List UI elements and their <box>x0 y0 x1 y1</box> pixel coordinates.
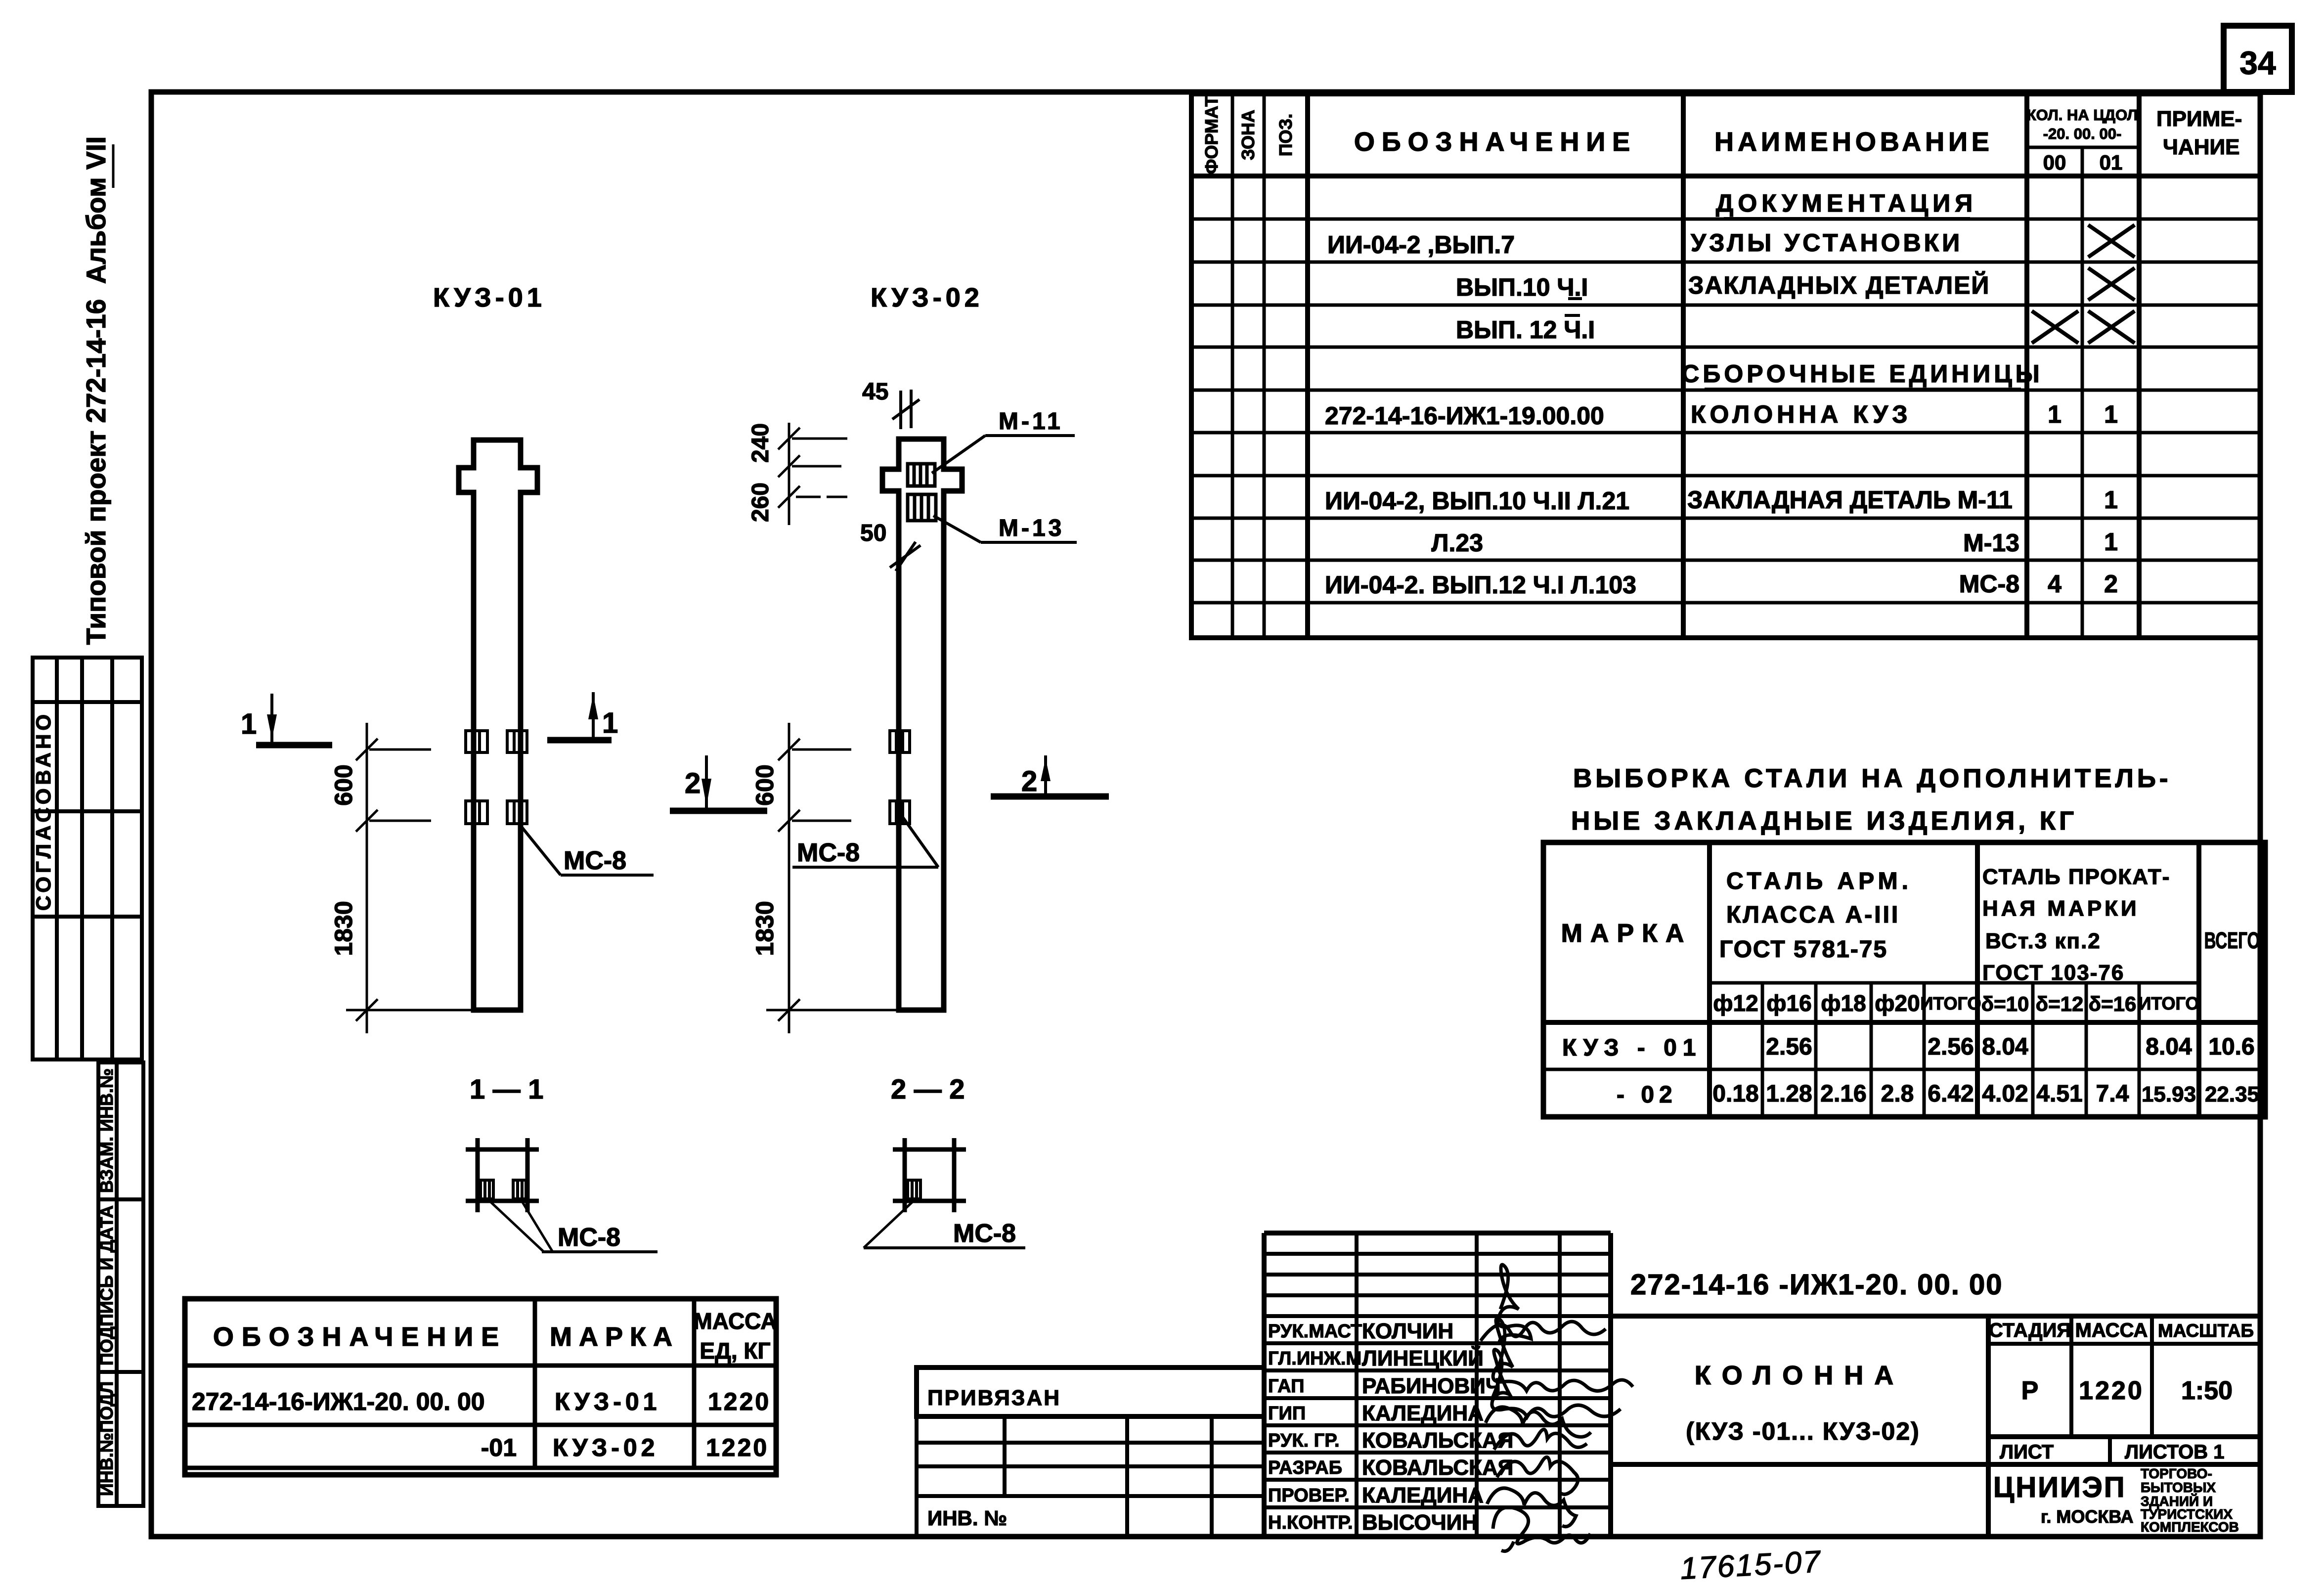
handwritten archive number 17615-07 <box>1679 1544 1822 1586</box>
svg-text:КУЗ-01: КУЗ-01 <box>433 283 546 312</box>
svg-text:8.04: 8.04 <box>2146 1034 2192 1060</box>
svg-text:2.56: 2.56 <box>1766 1034 1812 1060</box>
left stamp grid under privyazan <box>917 1416 1264 1537</box>
KUZ-01 dimension chain 600 / 1830 <box>346 723 474 1033</box>
svg-text:1: 1 <box>2104 400 2118 428</box>
svg-text:ЛИНЕЦКИЙ: ЛИНЕЦКИЙ <box>1362 1345 1484 1370</box>
svg-text:0.18: 0.18 <box>1712 1081 1758 1107</box>
svg-text:ЧАНИЕ: ЧАНИЕ <box>2163 135 2239 159</box>
svg-text:г. МОСКВА: г. МОСКВА <box>2041 1506 2134 1527</box>
svg-text:1220: 1220 <box>708 1388 771 1415</box>
left margin stamp boxes <box>98 1062 143 1506</box>
svg-text:4.02: 4.02 <box>1982 1081 2028 1107</box>
M-11 leader and label <box>932 408 1075 473</box>
svg-text:- 02: - 02 <box>1617 1082 1677 1108</box>
svg-text:2: 2 <box>1021 765 1037 797</box>
section mark 1 right <box>547 692 618 740</box>
svg-text:ф12: ф12 <box>1713 990 1758 1016</box>
svg-text:ЗАКЛАДНЫХ ДЕТАЛЕЙ: ЗАКЛАДНЫХ ДЕТАЛЕЙ <box>1688 271 1990 299</box>
svg-text:δ=12: δ=12 <box>2036 992 2084 1015</box>
svg-text:ИИ-04-2, ВЫП.10 Ч.II Л.21: ИИ-04-2, ВЫП.10 Ч.II Л.21 <box>1325 487 1629 515</box>
column KUZ-02 outline <box>882 439 962 1010</box>
svg-text:600: 600 <box>330 764 357 805</box>
svg-text:δ=10: δ=10 <box>1981 992 2029 1015</box>
svg-text:ЦНИИЭП: ЦНИИЭП <box>1993 1471 2126 1503</box>
svg-text:1: 1 <box>2048 400 2061 428</box>
svg-text:КОЛОННА КУЗ: КОЛОННА КУЗ <box>1691 400 1912 428</box>
svg-text:ф18: ф18 <box>1821 990 1866 1016</box>
specification table grid <box>1191 94 2260 638</box>
svg-text:ЕД, КГ: ЕД, КГ <box>700 1338 770 1364</box>
svg-text:КЛАССА А-III: КЛАССА А-III <box>1726 902 1900 928</box>
KUZ-02 embedded plates MC-8 on shaft <box>890 731 910 824</box>
svg-text:ВСЕГО: ВСЕГО <box>2204 928 2260 953</box>
column KUZ-01 label <box>433 283 546 312</box>
X marks in quantity columns <box>2032 225 2135 343</box>
svg-text:ЛИСТОВ 1: ЛИСТОВ 1 <box>2125 1441 2225 1463</box>
svg-text:ИНВ. №: ИНВ. № <box>927 1506 1007 1530</box>
svg-text:45: 45 <box>862 379 888 405</box>
svg-text:МАСШТАБ: МАСШТАБ <box>2158 1321 2254 1341</box>
svg-text:ОБОЗНАЧЕНИЕ: ОБОЗНАЧЕНИЕ <box>213 1322 507 1352</box>
svg-text:2 — 2: 2 — 2 <box>891 1073 965 1104</box>
soglasovano table <box>33 658 142 1059</box>
svg-text:ЗАКЛАДНАЯ ДЕТАЛЬ М-11: ЗАКЛАДНАЯ ДЕТАЛЬ М-11 <box>1687 486 2013 514</box>
privyazan box <box>917 1367 1264 1416</box>
svg-text:ВСт.3 кп.2: ВСт.3 кп.2 <box>1985 929 2101 953</box>
signature table names <box>1362 1319 1513 1535</box>
svg-text:ф20: ф20 <box>1875 990 1920 1016</box>
section 1-1 corner plates MC-8 <box>481 1180 526 1199</box>
section 2-2 corner plate MC-8 <box>908 1180 921 1199</box>
svg-text:600: 600 <box>751 764 779 805</box>
steel table row KUZ-01 <box>1562 1034 2255 1061</box>
svg-text:МАССА: МАССА <box>694 1308 777 1334</box>
svg-text:МС-8: МС-8 <box>564 846 626 875</box>
svg-text:272-14-16-ИЖ1-19.00.00: 272-14-16-ИЖ1-19.00.00 <box>1325 402 1604 430</box>
svg-text:-20. 00. 00-: -20. 00. 00- <box>2043 125 2122 142</box>
svg-text:1830: 1830 <box>751 901 779 956</box>
svg-text:КАЛЕДИНА: КАЛЕДИНА <box>1362 1401 1484 1425</box>
underlines in specification table <box>1565 219 2021 389</box>
svg-text:10.6: 10.6 <box>2208 1034 2254 1060</box>
sheet number box 34 <box>2224 26 2292 92</box>
svg-text:КУЗ-02: КУЗ-02 <box>871 283 983 312</box>
svg-text:ИИ-04-2 ,ВЫП.7: ИИ-04-2 ,ВЫП.7 <box>1327 231 1515 259</box>
KUZ-02 embedded plate M-13 <box>908 494 936 521</box>
svg-text:ИТОГО: ИТОГО <box>2139 993 2199 1014</box>
svg-text:ПРИМЕ-: ПРИМЕ- <box>2156 107 2242 131</box>
handwritten signatures <box>1481 1265 1633 1551</box>
svg-text:22.35: 22.35 <box>2205 1082 2259 1106</box>
svg-text:СБОРОЧНЫЕ ЕДИНИЦЫ: СБОРОЧНЫЕ ЕДИНИЦЫ <box>1681 360 2043 388</box>
svg-text:Типовой проект 272-14-16 Альб: Типовой проект 272-14-16 Альбом VII <box>81 136 111 645</box>
section 2-2 square <box>893 1138 966 1212</box>
dimension 50 <box>860 520 921 571</box>
section 1-1 label <box>470 1073 543 1104</box>
svg-text:ВЫСОЧИН: ВЫСОЧИН <box>1362 1510 1478 1535</box>
svg-text:ГЛ.ИНЖ.М: ГЛ.ИНЖ.М <box>1268 1348 1361 1369</box>
product name <box>1686 1361 1920 1445</box>
svg-text:М-13: М-13 <box>1963 529 2019 557</box>
svg-text:РУК. ГР.: РУК. ГР. <box>1268 1430 1340 1451</box>
section 1-1 square <box>466 1138 539 1212</box>
svg-text:272-14-16 -ИЖ1-20. 00. 00: 272-14-16 -ИЖ1-20. 00. 00 <box>1630 1269 2003 1301</box>
svg-text:8.04: 8.04 <box>1982 1034 2028 1060</box>
svg-text:ГАП: ГАП <box>1268 1376 1304 1397</box>
stage/mass/scale cells <box>1988 1316 2260 1464</box>
svg-text:КОВАЛЬСКАЯ: КОВАЛЬСКАЯ <box>1362 1428 1513 1453</box>
signature table labels <box>1268 1321 1362 1533</box>
KUZ-01 embedded plates MC-8 on shaft <box>466 731 527 824</box>
left margin vertical title: Типовой проект 272-14-16 Альбом VII <box>81 136 113 645</box>
svg-text:ФОРМАТ: ФОРМАТ <box>1201 96 1222 174</box>
svg-text:ПРОВЕР.: ПРОВЕР. <box>1268 1485 1350 1506</box>
svg-text:1 — 1: 1 — 1 <box>470 1073 543 1104</box>
svg-text:НЫЕ ЗАКЛАДНЫЕ ИЗДЕЛИЯ, КГ: НЫЕ ЗАКЛАДНЫЕ ИЗДЕЛИЯ, КГ <box>1571 806 2077 836</box>
svg-text:δ=16: δ=16 <box>2089 992 2137 1015</box>
svg-text:КУЗ - 01: КУЗ - 01 <box>1562 1035 1702 1061</box>
svg-text:МАРКА: МАРКА <box>1561 919 1692 948</box>
svg-text:НАЯ МАРКИ: НАЯ МАРКИ <box>1982 896 2140 921</box>
svg-text:01: 01 <box>2100 151 2123 174</box>
svg-text:ф16: ф16 <box>1766 990 1811 1016</box>
svg-text:МС-8: МС-8 <box>558 1223 620 1252</box>
svg-text:1220: 1220 <box>706 1434 769 1461</box>
section 2-2 label <box>891 1073 965 1104</box>
svg-text:КОЛ. НА ЦДОЛ: КОЛ. НА ЦДОЛ <box>2027 106 2138 124</box>
steel table grid <box>1543 842 2265 1117</box>
svg-text:(КУЗ -01... КУЗ-02): (КУЗ -01... КУЗ-02) <box>1686 1417 1920 1445</box>
M-13 leader and label <box>933 515 1077 542</box>
KUZ-01 MC-8 leader and label <box>519 823 654 875</box>
svg-text:ЛИСТ: ЛИСТ <box>2000 1441 2054 1463</box>
column KUZ-01 outline <box>459 440 537 1010</box>
svg-text:СОГЛАСОВАНО: СОГЛАСОВАНО <box>32 711 55 911</box>
svg-text:1:50: 1:50 <box>2181 1376 2233 1405</box>
svg-text:РУК.МАСТ: РУК.МАСТ <box>1268 1321 1362 1342</box>
KUZ-02 dimension chain 600 / 1830 <box>766 723 899 1033</box>
svg-text:КОВАЛЬСКАЯ: КОВАЛЬСКАЯ <box>1362 1456 1513 1480</box>
svg-text:ВЗАМ. ИНВ.№: ВЗАМ. ИНВ.№ <box>96 1068 117 1193</box>
svg-text:СТАЛЬ АРМ.: СТАЛЬ АРМ. <box>1726 868 1912 894</box>
svg-text:1830: 1830 <box>330 901 357 956</box>
svg-text:ТОРГОВО-: ТОРГОВО- <box>2141 1466 2212 1481</box>
steel table header texts <box>1561 865 2260 985</box>
svg-text:ГОСТ 103-76: ГОСТ 103-76 <box>1982 961 2124 985</box>
svg-text:КОМПЛЕКСОВ: КОМПЛЕКСОВ <box>2141 1519 2239 1535</box>
svg-text:4.51: 4.51 <box>2036 1081 2082 1107</box>
svg-text:ИНВ.№ПОДЛ: ИНВ.№ПОДЛ <box>96 1381 117 1496</box>
svg-text:00: 00 <box>2043 151 2066 174</box>
svg-text:2: 2 <box>685 767 701 799</box>
svg-text:2: 2 <box>2104 570 2118 598</box>
svg-text:ИИ-04-2. ВЫП.12 Ч.I Л.103: ИИ-04-2. ВЫП.12 Ч.I Л.103 <box>1325 571 1636 599</box>
svg-text:КУЗ-02: КУЗ-02 <box>553 1434 658 1461</box>
svg-text:ПОЗ.: ПОЗ. <box>1275 114 1296 156</box>
title block main dividers <box>1611 1316 2260 1537</box>
bottom-left designation table grid <box>185 1299 776 1475</box>
svg-text:КАЛЕДИНА: КАЛЕДИНА <box>1362 1483 1484 1507</box>
svg-text:4: 4 <box>2048 570 2061 598</box>
specification table rows <box>1325 189 2118 599</box>
svg-text:СТАДИЯ: СТАДИЯ <box>1989 1320 2071 1341</box>
svg-text:ПОДПИСЬ И ДАТА: ПОДПИСЬ И ДАТА <box>96 1205 117 1366</box>
signature table grid <box>1264 1233 1611 1537</box>
svg-text:15.93: 15.93 <box>2142 1082 2196 1106</box>
bottom-left table texts <box>192 1308 777 1461</box>
svg-text:ВЫБОРКА СТАЛИ НА ДОПОЛНИТЕЛ: ВЫБОРКА СТАЛИ НА ДОПОЛНИТЕЛЬ- <box>1573 764 2172 793</box>
svg-text:1: 1 <box>2104 486 2118 514</box>
svg-text:1: 1 <box>241 708 257 740</box>
svg-text:ОБОЗНАЧЕНИЕ: ОБОЗНАЧЕНИЕ <box>1354 127 1637 157</box>
svg-text:2.16: 2.16 <box>1820 1081 1866 1107</box>
svg-text:КОЛЧИН: КОЛЧИН <box>1362 1319 1453 1343</box>
svg-text:КУЗ-01: КУЗ-01 <box>555 1388 660 1415</box>
svg-text:1: 1 <box>602 707 618 739</box>
svg-text:М-11: М-11 <box>999 408 1063 435</box>
svg-text:ДОКУМЕНТАЦИЯ: ДОКУМЕНТАЦИЯ <box>1716 189 1977 217</box>
section mark 2 left <box>670 755 767 811</box>
svg-text:272-14-16-ИЖ1-20. 00. 00: 272-14-16-ИЖ1-20. 00. 00 <box>192 1388 485 1415</box>
svg-text:СТАЛЬ ПРОКАТ-: СТАЛЬ ПРОКАТ- <box>1982 865 2170 889</box>
svg-text:ВЫП.10 Ч.I: ВЫП.10 Ч.I <box>1456 273 1588 301</box>
section mark 1 left <box>241 694 332 745</box>
svg-text:М-13: М-13 <box>999 515 1064 541</box>
specification table header texts <box>1201 96 2242 174</box>
KUZ-02 top dimension chain 240 / 260 <box>778 423 847 525</box>
svg-text:БЫТОВЫХ: БЫТОВЫХ <box>2141 1480 2216 1495</box>
svg-text:260: 260 <box>747 483 774 522</box>
column KUZ-02 label <box>871 283 983 312</box>
svg-text:ИТОГО: ИТОГО <box>1921 993 1981 1014</box>
steel selection title <box>1571 764 2172 836</box>
svg-text:Н.КОНТР.: Н.КОНТР. <box>1268 1512 1353 1533</box>
svg-text:240: 240 <box>747 423 774 463</box>
institute name <box>1993 1466 2239 1535</box>
steel table subheader <box>1713 990 2199 1016</box>
svg-text:50: 50 <box>860 520 886 546</box>
svg-text:1: 1 <box>2104 528 2118 556</box>
svg-text:7.4: 7.4 <box>2096 1081 2129 1107</box>
svg-text:МС-8: МС-8 <box>797 838 860 867</box>
svg-text:РАБИНОВИЧ: РАБИНОВИЧ <box>1362 1374 1501 1398</box>
svg-text:НАИМЕНОВАНИЕ: НАИМЕНОВАНИЕ <box>1714 127 1993 157</box>
svg-text:ПРИВЯЗАН: ПРИВЯЗАН <box>927 1386 1061 1410</box>
title designation 272-14-16-ИЖ1-20.00.00 <box>1630 1269 2003 1301</box>
section 1-1 MC-8 leaders and label <box>488 1200 658 1252</box>
svg-text:34: 34 <box>2239 44 2276 81</box>
svg-text:2.56: 2.56 <box>1928 1034 1973 1060</box>
svg-text:6.42: 6.42 <box>1928 1081 1973 1107</box>
svg-text:ГИП: ГИП <box>1268 1403 1306 1424</box>
svg-text:Р: Р <box>2021 1376 2039 1405</box>
KUZ-02 embedded plate M-11 <box>908 464 935 486</box>
svg-text:КОЛОННА: КОЛОННА <box>1695 1361 1905 1390</box>
dimension 45 at top <box>862 379 920 429</box>
section 2-2 MC-8 leader and label <box>864 1200 1025 1248</box>
svg-text:МАРКА: МАРКА <box>550 1322 679 1352</box>
svg-text:1220: 1220 <box>2079 1376 2144 1405</box>
svg-text:1.28: 1.28 <box>1766 1081 1812 1107</box>
svg-text:МС-8: МС-8 <box>1959 570 2019 598</box>
svg-text:2.8: 2.8 <box>1881 1081 1914 1107</box>
section mark 2 right <box>991 755 1109 797</box>
svg-text:ЗОНА: ЗОНА <box>1238 110 1258 160</box>
svg-text:Л.23: Л.23 <box>1431 529 1483 557</box>
KUZ-02 MC-8 leader and label <box>792 816 938 867</box>
svg-text:-01: -01 <box>481 1434 517 1461</box>
svg-text:ГОСТ 5781-75: ГОСТ 5781-75 <box>1719 936 1887 963</box>
svg-text:РАЗРАБ: РАЗРАБ <box>1268 1457 1342 1478</box>
steel table row -02 <box>1617 1081 2259 1108</box>
svg-text:МАССА: МАССА <box>2075 1320 2148 1341</box>
svg-text:МС-8: МС-8 <box>953 1219 1016 1248</box>
svg-text:ВЫП. 12 Ч.I: ВЫП. 12 Ч.I <box>1456 316 1595 344</box>
svg-text:УЗЛЫ УСТАНОВКИ: УЗЛЫ УСТАНОВКИ <box>1691 229 1963 257</box>
